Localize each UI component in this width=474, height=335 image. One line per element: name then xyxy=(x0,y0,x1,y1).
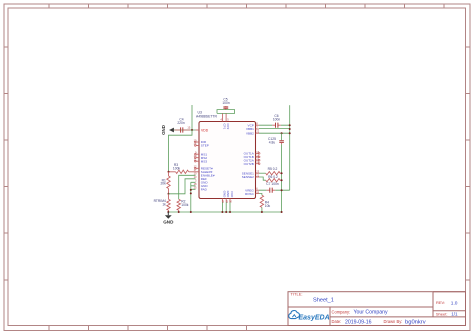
svg-text:TITLE:: TITLE: xyxy=(291,292,303,297)
svg-text:A4988SETTR: A4988SETTR xyxy=(196,114,217,118)
svg-text:PAD: PAD xyxy=(230,191,234,198)
wire charge-pump loop (CP1/CP2 to C5) xyxy=(217,110,235,114)
node R1-RTRIM4-REF junction xyxy=(168,193,170,195)
wire VBB2 row xyxy=(259,132,290,134)
pin VCP stub xyxy=(256,124,260,126)
pin RESET# stub xyxy=(195,168,200,170)
node GND bus rail junction xyxy=(190,211,192,213)
svg-text:220n: 220n xyxy=(177,121,185,125)
node VBB2 C125 junction xyxy=(281,132,283,134)
node rail right end junction xyxy=(281,211,283,213)
node bottom pin rail junction 2 xyxy=(225,211,227,213)
resistor R2 xyxy=(177,199,180,212)
wire VBB1 row xyxy=(259,128,290,130)
svg-text:GND: GND xyxy=(163,219,174,224)
svg-text:100k: 100k xyxy=(173,167,181,171)
pin VBB1 stub xyxy=(256,128,260,130)
pin MS1 stub xyxy=(195,153,200,155)
border zone ticks right xyxy=(466,47,471,280)
svg-text:ROSC: ROSC xyxy=(245,192,255,196)
resistor R3 xyxy=(169,170,200,173)
border zone ticks bottom xyxy=(49,326,247,331)
node C7 column junction xyxy=(281,189,283,191)
resistor R1 xyxy=(167,172,170,194)
node R5 column junction xyxy=(281,172,283,174)
svg-text:SENSE2: SENSE2 xyxy=(242,175,254,179)
svg-text:OUT2B: OUT2B xyxy=(244,162,254,166)
node VBB2 rail junction xyxy=(289,132,291,134)
wire GND flag to VDD pin horizontal xyxy=(170,129,196,131)
wire ROSC to R4 xyxy=(259,194,262,196)
resistor R6 xyxy=(259,177,282,182)
svg-text:GND: GND xyxy=(161,125,166,135)
svg-text:1/1: 1/1 xyxy=(451,312,458,317)
border zone ticks top xyxy=(49,4,444,8)
node bottom pin rail junction 3 xyxy=(229,211,231,213)
svg-text:Company:: Company: xyxy=(332,309,351,314)
pin OUT2A stub xyxy=(256,159,261,161)
svg-text:R5 0.2: R5 0.2 xyxy=(268,167,278,171)
svg-text:100k: 100k xyxy=(181,203,189,207)
wire VDD vertical stub to top xyxy=(191,105,193,130)
pin SENSE2 stub xyxy=(256,176,260,178)
svg-text:REV:: REV: xyxy=(436,300,445,305)
node R4 rail junction xyxy=(261,211,263,213)
svg-text:PAD: PAD xyxy=(201,188,208,192)
pin OUT2B stub xyxy=(256,163,261,165)
svg-text:CP1: CP1 xyxy=(223,124,227,130)
wire ground rail bottom xyxy=(168,211,281,213)
svg-text:2019-09-16: 2019-09-16 xyxy=(345,320,372,326)
title block outline xyxy=(288,292,466,326)
svg-text:1.0: 1.0 xyxy=(451,300,458,306)
svg-text:GND: GND xyxy=(222,191,226,199)
svg-text:VDD: VDD xyxy=(201,128,209,132)
wire VREG row xyxy=(259,189,290,191)
pin VREG stub xyxy=(256,189,260,191)
svg-text:CP2: CP2 xyxy=(226,124,230,130)
node bottom pin rail junction 1 xyxy=(221,211,223,213)
svg-text:Date:: Date: xyxy=(332,319,342,324)
svg-text:Sheet_1: Sheet_1 xyxy=(313,298,334,304)
wire GND pins bus xyxy=(191,182,196,212)
wire VCP row xyxy=(259,124,290,126)
wire ENABLE to R2 xyxy=(179,175,196,199)
svg-text:Sheet:: Sheet: xyxy=(436,311,448,316)
pin CP1 stub xyxy=(222,113,224,121)
ground flag bottom xyxy=(163,212,174,224)
pin MS3 stub xyxy=(195,160,200,162)
node R3-left junction xyxy=(168,171,170,173)
IC bottom pins to ground rail xyxy=(222,199,230,213)
pin VDD stub xyxy=(196,129,200,131)
pin STEP stub xyxy=(195,145,200,147)
ground flag left (rotated) xyxy=(161,125,174,135)
resistor RTRIM4 xyxy=(167,194,170,212)
svg-text:20k: 20k xyxy=(160,182,166,186)
pin MS2 stub xyxy=(195,157,200,159)
svg-text:1k: 1k xyxy=(162,203,166,207)
node GND pin junction 2 xyxy=(190,192,192,194)
capacitor C6 xyxy=(272,123,281,128)
pin SENSE1 stub xyxy=(256,172,260,174)
svg-text:bg0nkrv: bg0nkrv xyxy=(405,320,426,326)
EasyEDA logo cloud xyxy=(289,311,300,319)
svg-text:R6 0.2: R6 0.2 xyxy=(268,175,278,179)
svg-text:100n: 100n xyxy=(222,101,230,105)
svg-text:4.8u: 4.8u xyxy=(269,140,276,144)
wire VBB rail right vertical xyxy=(289,105,291,190)
node R6 column junction xyxy=(281,179,283,181)
svg-text:100n: 100n xyxy=(273,117,281,121)
svg-text:STEP: STEP xyxy=(201,144,209,148)
capacitor C5 xyxy=(223,106,228,110)
svg-text:EasyEDA: EasyEDA xyxy=(299,315,330,322)
node R2 bottom junction xyxy=(178,211,180,213)
pin ROSC stub xyxy=(256,193,260,195)
capacitor C4 xyxy=(175,127,191,132)
svg-text:VBB2: VBB2 xyxy=(246,131,254,135)
resistor R4 xyxy=(260,195,263,212)
node GND pin junction 1 xyxy=(190,189,192,191)
wire VDD down-left to divider xyxy=(169,130,193,172)
capacitor C7 xyxy=(266,188,275,193)
svg-text:MS3: MS3 xyxy=(201,159,208,163)
svg-text:C7 100n: C7 100n xyxy=(266,182,279,186)
capacitor C125 xyxy=(279,133,284,144)
pin OUT1A stub xyxy=(256,153,261,155)
node C6 rail junction xyxy=(289,124,291,126)
svg-text:Your Company: Your Company xyxy=(354,310,389,316)
node rail left end junction xyxy=(167,211,169,213)
pin DIR stub xyxy=(195,141,200,143)
svg-text:Drawn By:: Drawn By: xyxy=(384,319,403,324)
wire C125 column down to rail xyxy=(281,144,283,212)
op-amp/driver IC U1 body (A4988SETTR U3) xyxy=(199,122,256,199)
border zone ticks left xyxy=(4,47,8,280)
wire REF to divider tap xyxy=(169,179,196,194)
pin OUT1B stub xyxy=(256,156,261,158)
resistor R5 xyxy=(259,172,282,175)
svg-text:10k: 10k xyxy=(265,204,271,208)
svg-text:GND: GND xyxy=(226,191,230,199)
node VBB1 rail junction xyxy=(289,128,291,130)
node VDD junction xyxy=(191,129,193,131)
pin CP2 stub xyxy=(225,113,227,121)
pin VBB2 stub xyxy=(256,132,260,134)
